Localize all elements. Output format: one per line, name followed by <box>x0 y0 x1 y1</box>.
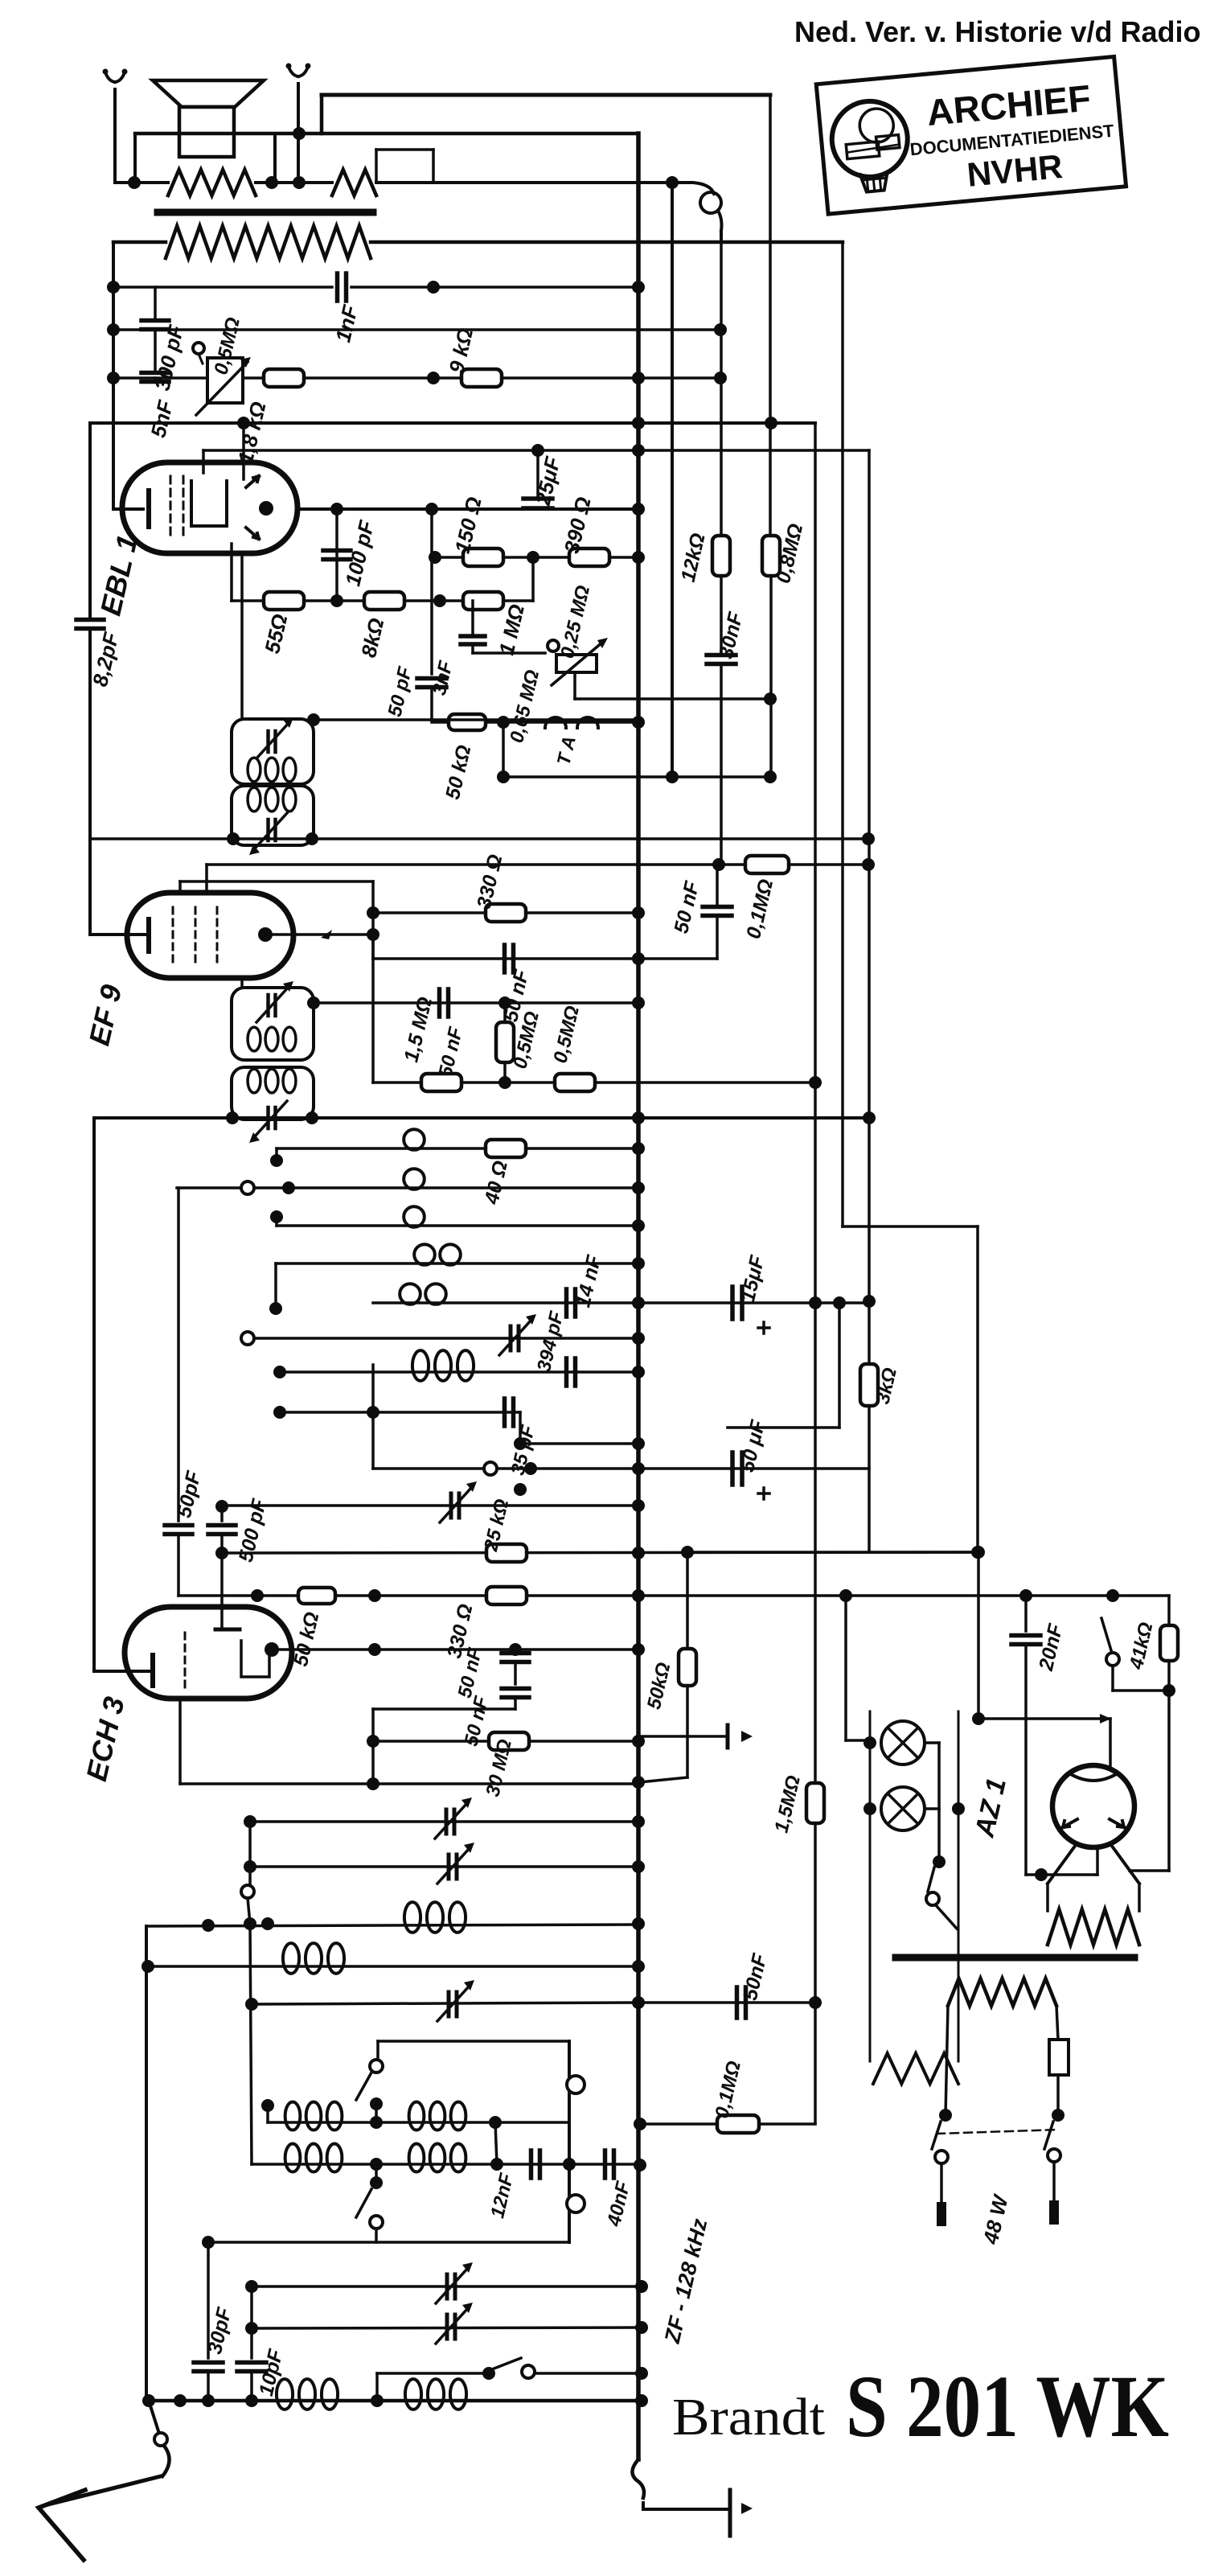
vertical x1014 <box>814 423 817 2123</box>
antenna <box>39 2401 170 2560</box>
wire y898 <box>432 716 645 729</box>
svg-text:30 MΩ: 30 MΩ <box>482 1737 516 1799</box>
wire y1872 <box>215 1499 645 1513</box>
IF transformer 1a <box>232 717 314 784</box>
svg-text:48 W: 48 W <box>978 2192 1014 2247</box>
label ECH 3 <box>80 1694 131 1785</box>
wire y470 <box>113 372 727 384</box>
svg-text:150 Ω: 150 Ω <box>450 495 486 556</box>
wire y1247 <box>307 996 645 1009</box>
vertical x1048 <box>841 242 844 1226</box>
vertical x1044 seg <box>728 1303 839 1428</box>
wire y2393 <box>146 1917 645 1932</box>
coil row2 <box>404 1169 425 1189</box>
svg-text:25μF: 25μF <box>531 454 565 508</box>
IF transformer 2b <box>232 1067 314 1120</box>
capacitor 35pF <box>505 1399 540 1477</box>
svg-text:ECH 3: ECH 3 <box>80 1694 131 1785</box>
capacitor 15uF <box>638 1253 876 1333</box>
trimmer ant2 <box>436 2303 473 2344</box>
resistor 3k <box>860 1364 901 1406</box>
coil osc3b <box>409 2101 466 2130</box>
svg-text:50kΩ: 50kΩ <box>643 1660 675 1711</box>
resistor 12k <box>677 531 730 584</box>
wire y560 screen <box>203 444 869 457</box>
resistor 0,5M h <box>549 1004 595 1091</box>
svg-text:12nF: 12nF <box>486 2171 518 2221</box>
wire y1571 <box>269 1257 645 1315</box>
ground stub <box>638 1725 753 1748</box>
wire y2165 <box>373 1735 645 1748</box>
resistor 50k decoup <box>640 1552 696 1782</box>
switch frame right <box>567 2041 585 2242</box>
phone jack Y2 <box>286 64 311 183</box>
vertical x313 b <box>250 2286 253 2328</box>
tube EF9 <box>90 865 293 978</box>
heater lead x301 <box>240 553 244 719</box>
wire top y118 <box>322 93 770 97</box>
AZ1 heater legs <box>1048 1845 1139 1911</box>
tube ECH3 <box>94 1553 292 1699</box>
speaker <box>153 80 264 157</box>
lamp switch <box>926 1743 957 1929</box>
resistor 30M <box>482 1732 529 1798</box>
capacitor 40nF <box>603 2151 634 2229</box>
mains switch right <box>1044 2122 1060 2225</box>
svg-text:5nF: 5nF <box>146 397 178 440</box>
trimmer osc2 <box>437 1843 474 1884</box>
label ZF <box>660 2216 712 2346</box>
label AZ 1 <box>969 1775 1012 1840</box>
mains switch left <box>932 2122 948 2226</box>
capacitor 500pF <box>208 1497 271 1564</box>
svg-text:Ned. Ver. v. Historie v/d Radi: Ned. Ver. v. Historie v/d Radio <box>794 15 1201 48</box>
svg-text:55Ω: 55Ω <box>260 612 292 656</box>
coil osc4a <box>285 2143 343 2171</box>
switch frame bottom <box>202 2236 569 2249</box>
transformer HT winding <box>1048 1909 1139 1945</box>
wire y2218 <box>180 1699 645 1790</box>
left vertical x182 <box>145 1926 148 2401</box>
trimmer ant1 <box>436 2262 473 2303</box>
coil ant2 <box>405 2379 466 2410</box>
coil row3 <box>404 1206 425 1227</box>
IF transformer 2a <box>232 981 314 1060</box>
capacitor 20nF <box>1011 1596 1068 1875</box>
tube AZ1 rectifier <box>1052 1765 1134 1847</box>
switch frame top <box>378 2040 569 2043</box>
output transformer core <box>158 209 373 216</box>
potentiometer 0,5M <box>193 315 251 415</box>
wire y747 <box>232 557 533 607</box>
svg-text:1,5MΩ: 1,5MΩ <box>770 1773 805 1835</box>
wire y2492 <box>245 1996 645 2011</box>
wire y2895 <box>245 2321 648 2335</box>
B+ bus vertical <box>636 134 641 2459</box>
resistor 8k <box>356 592 404 659</box>
wire EF9 anode <box>265 906 379 941</box>
lamp winding <box>873 2053 958 2084</box>
wire y2691 <box>252 2158 646 2171</box>
wire y2445 <box>142 1960 645 1973</box>
coil row7 <box>412 1350 474 1381</box>
resistor 1,5M <box>400 995 461 1091</box>
wire y2639 <box>261 2099 569 2129</box>
svg-text:0,25 MΩ: 0,25 MΩ <box>556 583 594 660</box>
coil row4 <box>414 1244 461 1265</box>
heater lead EF9 <box>240 978 244 988</box>
fuse <box>1049 2040 1069 2122</box>
capacitor 10pF <box>237 2328 288 2401</box>
wire y1795 <box>514 1412 645 1450</box>
resistor 150 <box>450 495 503 566</box>
resistor 390 <box>560 495 609 566</box>
capacitor 50nF b <box>460 1662 529 1748</box>
tube EBL1 <box>113 423 297 553</box>
lamp rail right <box>958 1711 960 2061</box>
switch sw1 <box>356 2041 383 2122</box>
capacitor 394pF <box>533 1309 576 1386</box>
vertical x836 <box>671 183 674 777</box>
coil ant1 <box>277 2379 338 2410</box>
switch 41k <box>1101 1618 1175 1697</box>
wire y227 to hum-pot <box>272 176 332 189</box>
svg-text:14 nF: 14 nF <box>572 1253 605 1310</box>
svg-text:1,8 kΩ: 1,8 kΩ <box>233 400 271 466</box>
resistor 1,8k <box>233 369 304 466</box>
label EBL 1 <box>93 532 144 618</box>
wire y2843 <box>245 2280 648 2293</box>
svg-text:EBL 1: EBL 1 <box>93 532 144 618</box>
wire y693 <box>429 551 645 564</box>
capacitor 50uF <box>732 1418 769 1499</box>
svg-text:50 pF: 50 pF <box>384 664 416 718</box>
resistor 330 osc <box>443 1587 527 1661</box>
resistor 55 <box>260 592 304 655</box>
NVHR archive stamp <box>816 56 1126 214</box>
wire x1454 down <box>1130 1691 1169 1871</box>
svg-text:390 Ω: 390 Ω <box>560 495 596 556</box>
svg-text:50 kΩ: 50 kΩ <box>441 743 476 802</box>
svg-text:0,65 MΩ: 0,65 MΩ <box>506 668 544 745</box>
wire y869 pot top <box>575 672 770 699</box>
vertical x1216 <box>976 1226 979 1552</box>
svg-text:50 nF: 50 nF <box>434 1024 467 1078</box>
svg-text:50 μF: 50 μF <box>736 1418 769 1474</box>
switch sw3 <box>482 2358 648 2380</box>
wire y1756 <box>273 1406 520 1419</box>
potentiometer 0,25M volume <box>548 583 608 685</box>
resistor 50k osc <box>289 1588 335 1669</box>
svg-text:15μF: 15μF <box>736 1253 769 1304</box>
capacitor 1nF <box>330 273 363 344</box>
primary left lead <box>939 2006 952 2122</box>
dial lamp 1 <box>863 1721 939 1765</box>
switch link dashed <box>937 2130 1058 2134</box>
vertical x464 mid <box>371 1365 375 1469</box>
title S 201 WK <box>846 2357 1169 2455</box>
coil osc2 <box>283 1943 344 1974</box>
capacitor 50pF top <box>384 664 446 720</box>
wire y1524 <box>270 1210 645 1232</box>
wire y1620 <box>373 1296 645 1309</box>
svg-text:S 201 WK: S 201 WK <box>846 2357 1169 2455</box>
svg-text:20nF: 20nF <box>1035 1621 1068 1674</box>
svg-text:0,5MΩ: 0,5MΩ <box>549 1004 584 1066</box>
resistor 0,1M AVC <box>719 856 875 941</box>
title Brandt <box>672 2388 825 2447</box>
svg-text:AZ 1: AZ 1 <box>969 1775 1012 1840</box>
wire y1706 <box>273 1366 645 1378</box>
speaker lead right <box>273 134 277 183</box>
svg-text:T A: T A <box>552 734 579 767</box>
transformer core <box>896 1954 1134 1962</box>
capacitor 50nF inline <box>499 945 533 1024</box>
resistor 1,5M mains <box>770 1773 824 1835</box>
label 0,65M <box>506 668 544 745</box>
svg-text:41kΩ: 41kΩ <box>1126 1620 1158 1672</box>
capacitor 30nF <box>707 576 748 865</box>
switch contact x311 <box>241 1822 254 1924</box>
vertical x313 <box>250 1924 252 2164</box>
resistor 25k <box>480 1497 527 1562</box>
wire y1664 <box>241 1332 645 1345</box>
wire y410 <box>113 323 727 336</box>
capacitor 100pF <box>323 509 379 601</box>
resistor 330 EF9 <box>473 853 526 922</box>
switch sw2 <box>356 2164 383 2242</box>
capacitor 8,2pF <box>76 423 124 935</box>
vertical x896 chain <box>720 231 723 536</box>
svg-text:1nF: 1nF <box>330 302 363 345</box>
wire y2321 <box>244 1860 645 1873</box>
vertical x464 EF9 <box>371 881 375 959</box>
capacitor 50nF 2 <box>434 989 467 1079</box>
wire AZ1 anode feed <box>972 1546 1111 1766</box>
capacitor 50nF det <box>670 865 732 959</box>
svg-text:0,1MΩ: 0,1MΩ <box>742 877 777 940</box>
wire y1477 <box>177 1181 645 1194</box>
left vertical x141 <box>107 242 120 509</box>
capacitor 12nF <box>486 2151 539 2221</box>
capacitor 3nF <box>429 601 485 697</box>
wire y1346 <box>373 1076 822 1089</box>
vertical x959 <box>764 95 777 705</box>
label EF 9 <box>82 982 128 1049</box>
coil osc1 <box>404 1902 466 1933</box>
phone jack Y1 <box>103 69 128 183</box>
vertical x1081 <box>868 450 871 1551</box>
header text Ned. Ver. v. Historie v/d Radio <box>794 15 1201 48</box>
svg-text:EF 9: EF 9 <box>82 982 128 1049</box>
resistor 50k AF <box>441 714 486 802</box>
IF transformer 1b <box>232 786 314 855</box>
resistor 0,5M vert <box>496 1003 544 1083</box>
wire 3nF to pot <box>473 651 545 655</box>
diode lead x288 <box>230 544 233 601</box>
bus bottom hook <box>632 2459 730 2509</box>
capacitor 25uF <box>523 450 565 508</box>
svg-text:40 Ω: 40 Ω <box>480 1159 512 1207</box>
transformer primary winding <box>948 1978 1056 2006</box>
capacitor 300pF <box>142 287 188 392</box>
svg-text:40nF: 40nF <box>603 2179 634 2229</box>
trimmer osc3 <box>437 1980 474 2021</box>
dial lamp 2 <box>863 1787 965 1830</box>
pickup T A <box>545 717 598 767</box>
resistor 0,8M <box>762 521 807 585</box>
wire 50nF osc <box>640 1996 822 2009</box>
capacitor 50nF a <box>453 1645 529 1699</box>
svg-text:Brandt: Brandt <box>672 2388 825 2447</box>
svg-text:100 pF: 100 pF <box>340 517 379 588</box>
lamp rail left <box>846 1596 870 2061</box>
svg-text:1,5 MΩ: 1,5 MΩ <box>400 995 437 1064</box>
wire y357 grid feedback <box>113 281 645 294</box>
wire y1390 bus <box>94 1111 876 1124</box>
svg-text:50 kΩ: 50 kΩ <box>289 1610 324 1669</box>
resistor speaker shunt <box>115 170 278 195</box>
wire y166 <box>135 95 638 140</box>
resistor 40 <box>480 1140 526 1207</box>
svg-text:12kΩ: 12kΩ <box>677 531 710 584</box>
coil osc3a <box>285 2101 343 2130</box>
svg-text:0,1MΩ: 0,1MΩ <box>711 2059 745 2121</box>
trimmer row6 <box>499 1314 536 1355</box>
wire y1984 <box>178 1553 1169 1602</box>
coil row1 <box>404 1129 425 1150</box>
trimmer row9 <box>440 1481 477 1522</box>
coil row5 <box>400 1284 446 1304</box>
wire 0,8M down <box>769 576 773 777</box>
wire y2265 <box>244 1815 645 1828</box>
wire y1931 <box>215 1546 984 1559</box>
wire y2125 <box>367 1709 515 1784</box>
speaker lead left <box>133 134 137 183</box>
trimmer osc1 <box>435 1797 472 1839</box>
svg-text:ZF - 128 kHz: ZF - 128 kHz <box>660 2216 712 2346</box>
capacitor 14nF <box>567 1253 606 1317</box>
wire sw3 feed <box>377 2373 489 2401</box>
resistor 41k <box>1126 1596 1178 1691</box>
coil osc4b <box>409 2143 466 2171</box>
svg-text:50nF: 50nF <box>739 1951 772 2003</box>
capacitor 30pF <box>194 2242 236 2401</box>
label 48W <box>978 2192 1014 2247</box>
svg-text:394 pF: 394 pF <box>533 1309 568 1374</box>
svg-text:8,2pF: 8,2pF <box>88 629 124 688</box>
svg-text:50 nF: 50 nF <box>670 879 703 936</box>
capacitor 50nF osc <box>737 1951 772 2018</box>
wire y1826 <box>373 1462 869 1496</box>
wire y1525 jog <box>843 1225 978 1228</box>
vertical x464 b <box>371 959 375 1083</box>
svg-text:30nF: 30nF <box>715 610 748 661</box>
svg-text:10pF: 10pF <box>255 2347 288 2398</box>
wire y1043 <box>90 832 875 845</box>
vertical x537 <box>430 509 433 674</box>
hum pot tap <box>376 150 433 183</box>
resistor hum pot zigzag <box>332 170 679 195</box>
vertical x616 <box>495 2122 497 2164</box>
wire y1930 <box>687 1551 978 1554</box>
wire y1192 <box>373 935 717 965</box>
resistor 0,1M bottom <box>634 2059 815 2133</box>
wire y1096 <box>180 880 373 883</box>
resistor 9k <box>444 326 502 387</box>
svg-text:8kΩ: 8kΩ <box>356 616 388 660</box>
output transformer primary <box>113 226 843 258</box>
wire y1428 <box>270 1142 645 1167</box>
ground right <box>730 2490 753 2536</box>
vertical x117 <box>92 1118 96 1671</box>
svg-text:330 Ω: 330 Ω <box>473 853 507 911</box>
pigtail loop <box>672 183 722 241</box>
IF2 trimmer <box>249 1101 287 1143</box>
wire y2985 antenna bus <box>142 2394 648 2407</box>
wire y526 <box>90 417 815 429</box>
primary right lead <box>1056 2006 1058 2040</box>
wire ECH3 anode <box>272 1643 645 1656</box>
resistor 1M <box>463 592 529 657</box>
wire y966 pot bottom <box>497 722 777 783</box>
wire y895 <box>307 713 638 726</box>
capacitor 5nF <box>142 330 178 440</box>
wire AZ1 cathode <box>1026 1847 1097 1881</box>
wire y1135 <box>373 906 645 919</box>
wire anode y633 <box>297 503 645 516</box>
wire AVC y1075 <box>207 858 725 871</box>
capacitor 50pF mid <box>165 1188 206 1596</box>
